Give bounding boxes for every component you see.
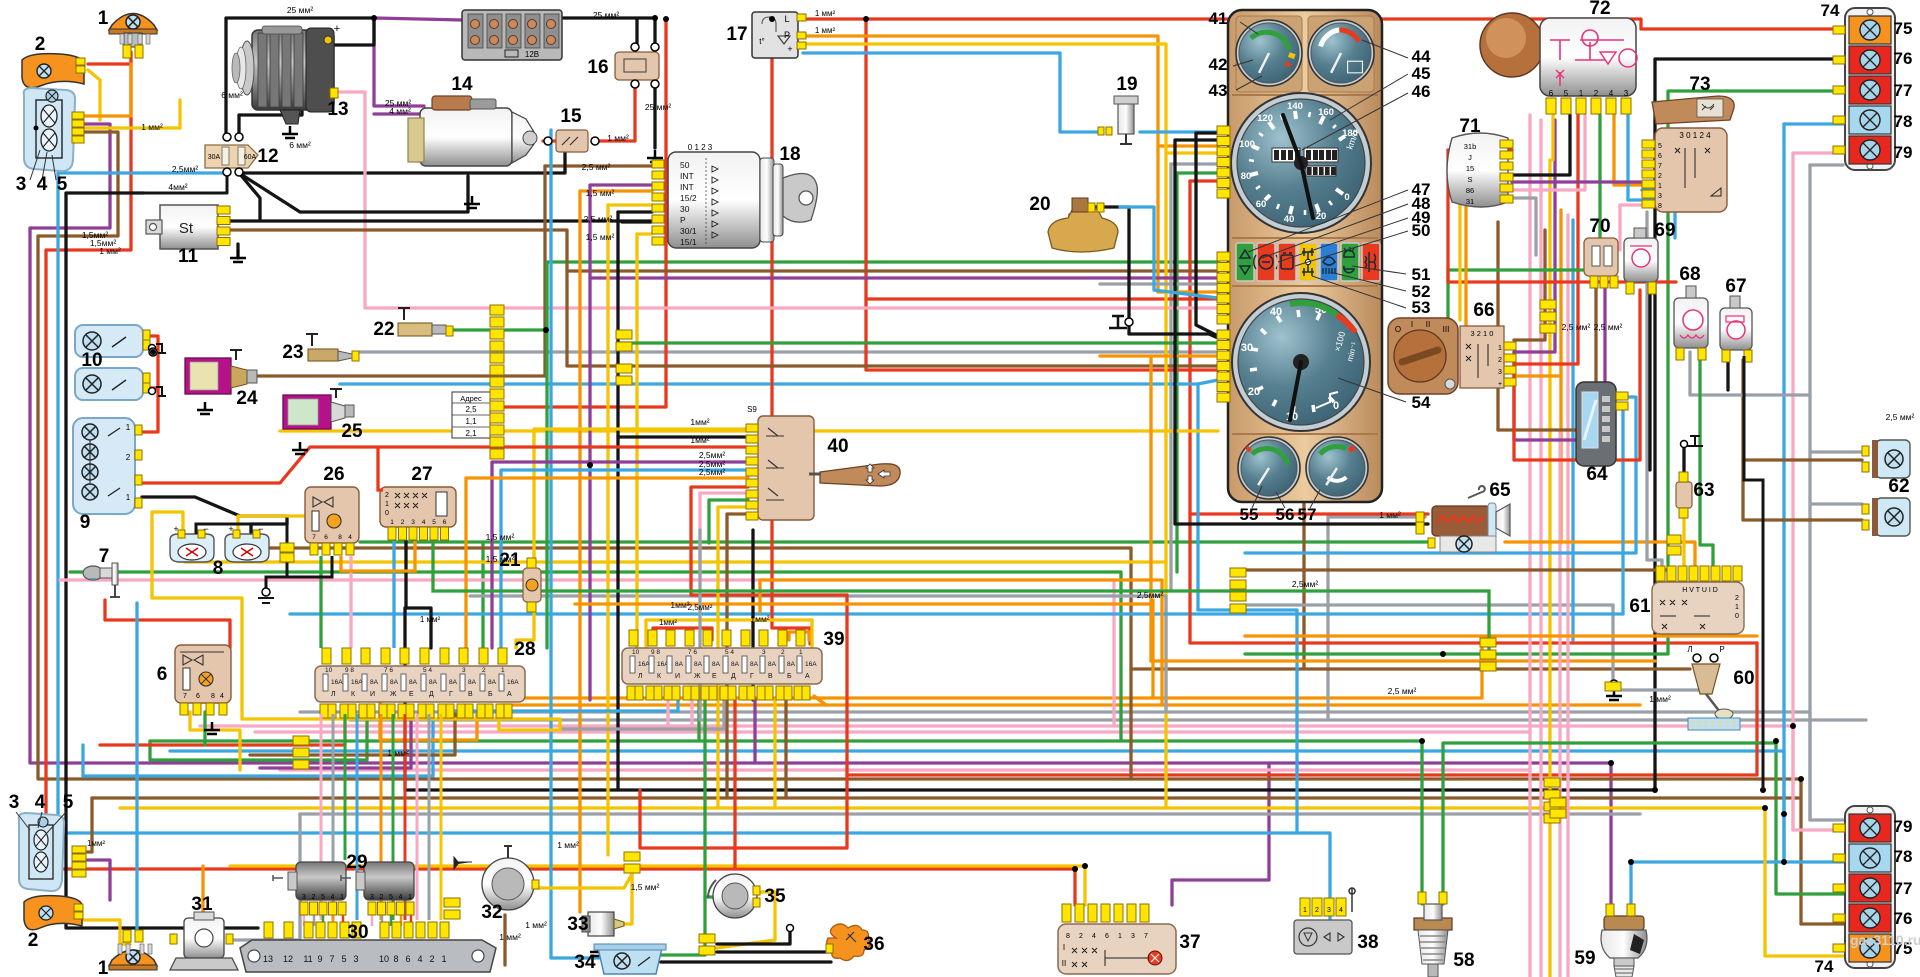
radio 64 xyxy=(1576,382,1616,466)
relay block 37 xyxy=(1058,924,1176,974)
lamp 1 roof bottom xyxy=(109,950,157,966)
wire lightblue cl vert xyxy=(1196,384,1199,610)
wire green 68 xyxy=(1700,352,1713,574)
wire green upper 1 xyxy=(547,260,1218,263)
svg-text:1: 1 xyxy=(501,667,505,674)
wire red 65 branch xyxy=(1190,512,1428,515)
lamp 1 roof top xyxy=(109,14,157,31)
svg-text:А: А xyxy=(805,673,810,680)
horn 20 xyxy=(1048,207,1118,252)
svg-text:15: 15 xyxy=(560,106,582,127)
svg-text:64: 64 xyxy=(1586,464,1608,485)
svg-text:+: + xyxy=(334,23,340,35)
lamp box 9 xyxy=(73,418,135,514)
svg-text:2: 2 xyxy=(401,519,405,526)
tachometer 54 xyxy=(1232,293,1370,431)
svg-text:INT: INT xyxy=(680,182,694,192)
junction dots xyxy=(371,15,377,21)
wire green 483 drop xyxy=(481,542,484,648)
svg-text:4: 4 xyxy=(37,174,48,195)
svg-text:16А: 16А xyxy=(507,679,519,686)
svg-text:2,5мм²: 2,5мм² xyxy=(1137,590,1164,600)
svg-text:8А: 8А xyxy=(675,661,684,668)
wire gray from 23 xyxy=(360,350,1218,353)
svg-text:56: 56 xyxy=(1276,505,1295,524)
svg-text:36: 36 xyxy=(863,934,884,955)
wire pink 39a xyxy=(666,700,669,726)
svg-text:20: 20 xyxy=(1316,211,1327,222)
svg-text:3: 3 xyxy=(1327,907,1331,914)
svg-text:Г: Г xyxy=(750,673,754,680)
svg-text:16А: 16А xyxy=(805,661,817,668)
svg-text:Е: Е xyxy=(712,673,717,680)
motor 69 xyxy=(1624,238,1658,282)
wire brown bottom 2 xyxy=(92,796,1801,799)
wire black 36b xyxy=(661,960,831,963)
svg-text:2: 2 xyxy=(28,930,39,951)
svg-text:30/1: 30/1 xyxy=(680,226,697,236)
sensor 22 xyxy=(398,323,432,336)
wire green bottom xyxy=(150,739,1422,742)
svg-text:30: 30 xyxy=(680,204,690,214)
svg-text:24: 24 xyxy=(236,388,258,409)
svg-text:3: 3 xyxy=(762,649,766,656)
svg-text:8А: 8А xyxy=(768,661,777,668)
svg-text:1 мм²: 1 мм² xyxy=(607,133,629,143)
terminal stubs 10 xyxy=(149,345,156,352)
svg-text:6: 6 xyxy=(1105,933,1109,940)
svg-text:8: 8 xyxy=(338,534,342,541)
wire red 71a xyxy=(1448,150,1676,282)
wire yellow headlamp xyxy=(84,126,180,129)
svg-text:1,1: 1,1 xyxy=(465,417,477,426)
wire black s9 pin xyxy=(618,435,748,438)
svg-text:Г: Г xyxy=(449,691,453,698)
svg-text:12: 12 xyxy=(257,146,278,167)
wire red bottom 775 xyxy=(847,773,1757,776)
svg-text:4: 4 xyxy=(1609,89,1614,98)
tail lamp block 74 xyxy=(1845,806,1895,968)
svg-text:15/1: 15/1 xyxy=(680,237,697,247)
tail lamp block 74 xyxy=(1845,8,1895,170)
wire black 67 xyxy=(1726,352,1729,390)
cluster connector strip mid xyxy=(1217,252,1230,261)
wire yellow headlamp hook xyxy=(178,100,181,128)
svg-text:1: 1 xyxy=(98,8,109,29)
wire green cluster low xyxy=(620,341,1218,344)
wire brown s9 drop xyxy=(727,514,748,798)
wire red drop 772 xyxy=(772,19,810,644)
wire red drop to 27 xyxy=(378,447,383,490)
svg-text:А: А xyxy=(507,691,512,698)
svg-text:8А: 8А xyxy=(750,661,759,668)
svg-text:6: 6 xyxy=(405,954,410,964)
wire lightblue to lamp 78 xyxy=(1631,862,1843,904)
svg-text:Д: Д xyxy=(429,691,434,698)
svg-text:55: 55 xyxy=(1240,505,1259,524)
wire green 35 xyxy=(705,895,719,898)
wire green cluster stub xyxy=(1177,171,1218,174)
wire green 39 down2 xyxy=(697,700,700,741)
svg-text:160: 160 xyxy=(1318,107,1334,118)
svg-text:8А: 8А xyxy=(488,679,497,686)
svg-text:И: И xyxy=(370,691,375,698)
svg-text:1мм²: 1мм² xyxy=(690,435,709,445)
wire orange mid vert3 xyxy=(1160,580,1163,705)
wire red 10b xyxy=(133,386,158,389)
wire brown left trunk xyxy=(38,132,1843,924)
wire pink bottom 1 xyxy=(200,726,1843,830)
wire pink right 2 xyxy=(1539,120,1542,977)
wire black 36a xyxy=(717,950,831,953)
relay 70 xyxy=(1584,238,1618,276)
svg-text:2: 2 xyxy=(35,34,46,55)
wire yellow 32 xyxy=(531,874,632,888)
svg-text:5: 5 xyxy=(1658,143,1662,150)
connector 61 xyxy=(1652,582,1744,634)
wire orange s9 xyxy=(466,478,748,648)
wire purple 66 xyxy=(1514,120,1555,352)
wire brown to 24 xyxy=(250,374,545,377)
svg-text:59: 59 xyxy=(1574,948,1595,969)
wire green s9 drop xyxy=(709,500,748,543)
wire gray 62b xyxy=(1810,502,1862,505)
svg-text:72: 72 xyxy=(1589,0,1610,19)
sensor 24 xyxy=(185,358,231,394)
wire red 10a xyxy=(133,336,158,432)
svg-text:1 мм²: 1 мм² xyxy=(420,615,441,624)
wire pink bottom 2 xyxy=(255,730,1530,733)
wire black cluster pair b xyxy=(1175,140,1428,524)
wire brown 32 xyxy=(503,915,506,965)
svg-text:7 6: 7 6 xyxy=(384,667,393,674)
svg-text:1мм²: 1мм² xyxy=(87,839,105,848)
wire orange 543 xyxy=(1505,542,1695,575)
starter motor 14 xyxy=(420,108,512,166)
alternator 13 xyxy=(252,30,334,110)
wire brown ign50 vert xyxy=(543,166,546,376)
svg-text:8: 8 xyxy=(211,693,215,700)
svg-text:5: 5 xyxy=(432,519,436,526)
svg-text:7: 7 xyxy=(1658,163,1662,170)
svg-text:60: 60 xyxy=(1256,199,1267,210)
svg-text:6: 6 xyxy=(443,519,447,526)
svg-text:60: 60 xyxy=(1733,668,1754,689)
wire yellow right long xyxy=(1548,160,1551,977)
wire yellow bottom xyxy=(120,808,1843,956)
wire gray bottom 2 xyxy=(350,718,1866,721)
wire yellow mid drop xyxy=(1164,562,1167,808)
wire red 39 big loop xyxy=(640,595,847,848)
svg-text:3: 3 xyxy=(302,894,306,901)
svg-text:8: 8 xyxy=(1658,203,1662,210)
wire brown 39 down xyxy=(784,700,787,798)
wire brown mid xyxy=(250,548,1131,779)
wire purple 70 xyxy=(1514,272,1605,440)
ground flag node near cluster xyxy=(1125,318,1133,326)
wire green 39 down xyxy=(661,700,705,955)
wire lightblue 27 down xyxy=(392,541,395,648)
svg-text:42: 42 xyxy=(1209,55,1228,74)
svg-text:2: 2 xyxy=(380,894,384,901)
svg-text:3: 3 xyxy=(353,954,358,964)
svg-text:2,5мм²: 2,5мм² xyxy=(172,164,199,174)
connector 36 xyxy=(827,924,871,961)
svg-text:5 4: 5 4 xyxy=(725,649,734,656)
wire brown 66 xyxy=(1514,230,1545,340)
svg-text:I: I xyxy=(1063,943,1065,952)
wire black alt plus xyxy=(320,18,374,45)
svg-text:3: 3 xyxy=(9,792,20,813)
svg-text:78: 78 xyxy=(1894,847,1913,866)
wire orange 633 xyxy=(1245,634,1757,637)
svg-text:7 6: 7 6 xyxy=(688,649,697,656)
svg-text:2,5 мм²: 2,5 мм² xyxy=(582,162,611,172)
horn 32 xyxy=(482,858,534,910)
ground node 63 xyxy=(1681,441,1688,448)
svg-text:1мм²: 1мм² xyxy=(659,618,677,627)
svg-text:10: 10 xyxy=(379,954,389,964)
wire purple alternator feed xyxy=(374,18,424,106)
wire pink alt trunk xyxy=(338,92,1218,308)
wire lightblue from 25 xyxy=(340,380,1218,384)
wire orange right xyxy=(1559,210,1562,543)
wire lightblue 64b xyxy=(1616,407,1623,614)
svg-text:66: 66 xyxy=(1473,300,1494,321)
svg-text:15: 15 xyxy=(1466,164,1474,173)
svg-text:Ж: Ж xyxy=(390,691,397,698)
wire green 28a xyxy=(150,714,367,760)
svg-text:79: 79 xyxy=(1894,817,1913,836)
svg-text:3: 3 xyxy=(370,894,374,901)
stalk handle 40 xyxy=(820,464,900,486)
svg-text:4: 4 xyxy=(422,519,426,526)
svg-text:3: 3 xyxy=(411,519,415,526)
gauge 55 oil xyxy=(1238,437,1300,499)
svg-text:35: 35 xyxy=(764,886,786,907)
wire black battery right xyxy=(560,18,655,47)
svg-text:27: 27 xyxy=(411,464,432,485)
svg-text:1 мм²: 1 мм² xyxy=(387,748,409,758)
wire purple to 59 xyxy=(1269,763,1611,904)
svg-text:67: 67 xyxy=(1725,276,1746,297)
svg-text:8: 8 xyxy=(213,558,224,579)
wire purple 71 xyxy=(1512,180,1642,183)
svg-text:73: 73 xyxy=(1689,74,1710,95)
svg-text:17: 17 xyxy=(726,24,747,45)
wire gray right vert xyxy=(1808,165,1811,820)
wires 28 to 30 connector xyxy=(320,714,323,920)
wire orange 31 xyxy=(201,866,204,917)
svg-text:25 мм²: 25 мм² xyxy=(593,10,620,20)
svg-text:Адрес: Адрес xyxy=(460,394,482,403)
lamp unit 8a xyxy=(170,534,214,562)
switch 38 xyxy=(1300,898,1310,916)
instrument cluster panel 41 xyxy=(1228,10,1382,502)
wire green 27 long xyxy=(433,541,1489,654)
svg-text:2,5 мм²: 2,5 мм² xyxy=(1562,322,1591,332)
wire green from 22 xyxy=(450,328,546,331)
svg-text:1: 1 xyxy=(408,894,412,901)
svg-text:1 мм²: 1 мм² xyxy=(1649,694,1671,704)
wire gray 71 xyxy=(1512,198,1536,255)
svg-text:2,5мм²: 2,5мм² xyxy=(1292,579,1319,589)
svg-text:10: 10 xyxy=(81,350,102,371)
wire black 4mm st xyxy=(144,173,227,193)
wire pink to 79 top xyxy=(1793,151,1843,154)
svg-text:gaz3110.ru: gaz3110.ru xyxy=(1850,932,1920,948)
wire lightblue mid 614 xyxy=(290,612,1623,615)
switch logic 73 xyxy=(1655,128,1727,212)
horn 35 xyxy=(713,874,757,918)
svg-text:6: 6 xyxy=(157,664,168,685)
device 33 xyxy=(588,912,614,936)
cluster connector strip top xyxy=(1217,126,1230,135)
wire green 58b xyxy=(1443,743,1776,904)
wire orange 72 xyxy=(1614,115,1642,185)
svg-text:2,5 мм²: 2,5 мм² xyxy=(584,214,613,224)
svg-text:И: И xyxy=(675,673,680,680)
svg-text:II: II xyxy=(1062,959,1066,968)
wire yellow 39 top xyxy=(646,620,812,648)
wire purple s9 xyxy=(492,462,748,648)
svg-text:8А: 8А xyxy=(390,679,399,686)
wire brown 62c xyxy=(1743,460,1862,520)
svg-text:86: 86 xyxy=(1466,186,1474,195)
wire gray s9 vert xyxy=(698,530,701,720)
svg-text:31b: 31b xyxy=(1464,142,1477,151)
wire brown St to cluster xyxy=(220,230,1218,366)
wire purple left trunk xyxy=(30,124,1269,905)
svg-text:4 мм²: 4 мм² xyxy=(389,106,411,116)
svg-text:20: 20 xyxy=(1029,194,1050,215)
relay 16 xyxy=(615,52,659,80)
wire red left trunk xyxy=(46,52,1075,905)
wire green cluster vert xyxy=(1175,173,1178,572)
svg-text:9: 9 xyxy=(80,512,91,533)
svg-text:S: S xyxy=(1467,175,1472,184)
svg-text:Е: Е xyxy=(409,691,414,698)
wire red 16 to 15 xyxy=(594,84,635,141)
headlamp block 3 4 5 bottom xyxy=(19,813,64,891)
wire red drop 866 xyxy=(866,19,1218,299)
svg-text:45: 45 xyxy=(1412,64,1431,83)
svg-text:78: 78 xyxy=(1894,112,1913,131)
relay 71 xyxy=(1447,133,1508,207)
wire yellow s9 xyxy=(534,429,748,558)
svg-text:62: 62 xyxy=(1888,476,1909,497)
washer pump 60 xyxy=(1693,654,1701,662)
svg-text:2,5 мм²: 2,5 мм² xyxy=(1886,412,1915,422)
svg-text:65: 65 xyxy=(1489,480,1511,501)
lamp 2 side repeater top xyxy=(22,54,84,88)
relay 6 xyxy=(175,645,231,703)
lamp 62a xyxy=(1876,440,1910,478)
switch box 66 xyxy=(1460,326,1504,388)
svg-text:63: 63 xyxy=(1693,480,1714,501)
svg-text:33: 33 xyxy=(567,914,588,935)
svg-text:1: 1 xyxy=(1303,907,1307,914)
warning lamp row 47-53 xyxy=(1236,243,1254,281)
svg-text:80: 80 xyxy=(1241,171,1252,182)
wire pink bottom 3 xyxy=(280,768,1530,771)
wire black 34 stub xyxy=(717,932,790,944)
wire orange 2.5 top xyxy=(760,580,1162,612)
wire yellow 17 xyxy=(803,44,1166,562)
svg-text:1,5 мм²: 1,5 мм² xyxy=(486,554,515,564)
svg-text:40: 40 xyxy=(1284,214,1295,225)
wire orange 71 xyxy=(1466,166,1512,330)
svg-text:6: 6 xyxy=(324,534,328,541)
wire brown 669 long xyxy=(1131,667,1690,670)
svg-text:7: 7 xyxy=(1144,933,1148,940)
wire pink 72 xyxy=(1512,115,1585,190)
wire lightblue lamp1b xyxy=(135,603,138,936)
wire lightblue 64a xyxy=(1245,397,1636,553)
wire purple ign xyxy=(590,185,652,465)
relay 27 xyxy=(380,487,456,527)
svg-text:Д: Д xyxy=(731,673,736,680)
svg-text:14: 14 xyxy=(451,74,473,95)
wire orange 39 right xyxy=(814,696,826,705)
svg-text:22: 22 xyxy=(373,319,394,340)
svg-text:1: 1 xyxy=(126,423,131,432)
battery 12V xyxy=(462,10,562,60)
wire black alt to 12 xyxy=(239,110,302,133)
wire gray 39 xyxy=(560,700,724,729)
svg-text:31: 31 xyxy=(191,894,213,915)
wire gray 73 down xyxy=(1647,212,1662,574)
svg-text:2,5: 2,5 xyxy=(465,405,477,414)
sensor 7 brake fluid xyxy=(83,566,103,580)
lamp box 10b xyxy=(75,368,143,400)
wire purple 590 low xyxy=(588,465,591,700)
svg-text:60А: 60А xyxy=(244,154,257,161)
wire gray cluster stub xyxy=(1171,162,1218,165)
wire orange headlamp xyxy=(84,64,131,116)
svg-text:1 мм²: 1 мм² xyxy=(815,9,836,18)
lighter 65 xyxy=(1432,506,1490,536)
sensor 23 xyxy=(308,349,338,361)
svg-text:6: 6 xyxy=(1658,153,1662,160)
svg-text:71: 71 xyxy=(1459,116,1481,137)
wire black 72 xyxy=(1512,115,1570,175)
wire gray 65 xyxy=(1328,517,1425,720)
svg-text:3 0 1 2 4: 3 0 1 2 4 xyxy=(1679,131,1711,140)
svg-text:1: 1 xyxy=(340,894,344,901)
wire green to 77 bottom xyxy=(1776,743,1843,894)
switch 15 xyxy=(556,130,588,152)
wire purple 39 down xyxy=(753,700,756,763)
wire green mid 1 xyxy=(360,540,1432,543)
svg-text:4: 4 xyxy=(417,954,422,964)
wire lightblue 19 out xyxy=(1140,130,1218,133)
wire orange mid vert xyxy=(1151,600,1154,698)
wire red 66 wire xyxy=(1514,115,1578,364)
svg-text:74: 74 xyxy=(1815,957,1834,976)
wire purple conn2 xyxy=(87,860,110,900)
svg-text:5 4: 5 4 xyxy=(423,667,432,674)
wire lightblue bottom xyxy=(170,751,1784,862)
svg-text:50: 50 xyxy=(680,160,690,170)
wire brown right xyxy=(1496,222,1499,430)
heater switch 66 xyxy=(1388,318,1458,394)
wire red lamp2 xyxy=(88,62,131,65)
svg-text:16: 16 xyxy=(587,57,608,78)
svg-text:4мм²: 4мм² xyxy=(168,182,187,192)
svg-text:38: 38 xyxy=(1357,932,1378,953)
svg-text:8А: 8А xyxy=(409,679,418,686)
